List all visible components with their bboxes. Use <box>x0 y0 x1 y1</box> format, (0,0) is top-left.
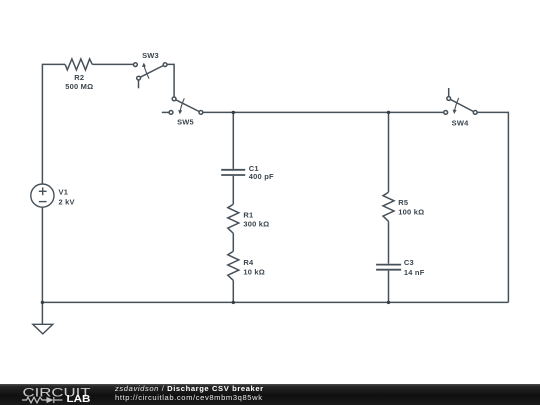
svg-text:C3: C3 <box>404 258 414 267</box>
wire: middle bus SW5 to SW4 <box>203 111 444 113</box>
wire: SW4 unconnected top stub <box>448 88 450 97</box>
svg-text:R5: R5 <box>398 198 408 207</box>
wire: bus to R5 top <box>388 112 390 192</box>
node: bottom C1-branch junction <box>232 301 235 304</box>
wire: R4 bottom to bus <box>232 280 234 302</box>
node: bus/C1 junction <box>232 111 235 114</box>
label V1 value <box>59 187 75 206</box>
svg-text:R2: R2 <box>74 73 84 82</box>
resistor R5 <box>383 192 394 221</box>
label C1 value <box>249 164 274 181</box>
label SW4 <box>452 119 469 128</box>
wire: C3 bottom to bus <box>388 271 390 303</box>
svg-text:100 kΩ: 100 kΩ <box>398 207 424 216</box>
svg-text:2 kV: 2 kV <box>59 197 75 206</box>
resistor R1 <box>228 204 239 233</box>
switch SW4 <box>444 97 477 115</box>
svg-text:300 kΩ: 300 kΩ <box>243 220 269 229</box>
node: bus/R5 junction <box>387 111 390 114</box>
svg-text:V1: V1 <box>59 187 69 196</box>
footer credit line <box>114 384 264 402</box>
capacitor C1 <box>221 170 245 175</box>
voltage source V1 <box>31 184 54 207</box>
svg-text:R4: R4 <box>243 258 254 267</box>
label R1 value <box>243 210 269 228</box>
svg-text:500 MΩ: 500 MΩ <box>65 82 93 91</box>
wire: top-left from R2 to left riser down to V1 <box>42 64 65 184</box>
capacitor C3 <box>376 265 401 270</box>
switch SW3 <box>134 63 168 89</box>
wire: R5 bottom to C3 top <box>388 221 390 263</box>
wire: bus to C1 top <box>232 112 234 168</box>
svg-text:400 pF: 400 pF <box>249 172 274 181</box>
svg-text:LAB: LAB <box>67 394 91 405</box>
node: bottom R5-branch junction <box>387 301 390 304</box>
CircuitLab logo schematic squiggle (resistor + diode) <box>22 397 63 403</box>
CircuitLab logo LAB text <box>67 394 91 405</box>
svg-text:SW5: SW5 <box>177 117 194 126</box>
wire: V1 bottom to ground junction <box>41 207 43 302</box>
svg-text:SW3: SW3 <box>142 51 159 60</box>
resistor R4 <box>228 251 239 280</box>
switch SW5 <box>169 97 203 114</box>
label R5 value <box>398 198 424 216</box>
CircuitLab logo wordmark <box>23 385 92 399</box>
resistor R2 <box>65 59 92 70</box>
svg-text:zsdavidson / Discharge CSV bre: zsdavidson / Discharge CSV breaker <box>114 384 264 393</box>
label SW5 <box>177 117 194 126</box>
svg-text:10 kΩ: 10 kΩ <box>243 267 265 276</box>
wire: ground stem <box>41 302 43 324</box>
label SW3 <box>142 51 159 60</box>
wire: R1 bottom to R4 top <box>232 233 234 251</box>
node: ground junction <box>41 301 44 304</box>
wire: R2 to SW3 terminal <box>92 63 133 65</box>
svg-text:R1: R1 <box>243 210 253 219</box>
label R2 value <box>65 73 93 91</box>
wire: SW4 right to right riser down to bus <box>477 112 508 302</box>
svg-text:SW4: SW4 <box>452 119 469 128</box>
svg-text:14 nF: 14 nF <box>404 268 425 277</box>
wire: SW5 unconnected left stub <box>162 111 169 113</box>
wire: bottom bus <box>42 301 508 303</box>
svg-text:http://circuitlab.com/cev8mbm3: http://circuitlab.com/cev8mbm3q85wk <box>115 393 263 402</box>
ground <box>33 324 53 334</box>
wire: C1 bottom to R1 top <box>232 176 234 204</box>
label C3 value <box>404 258 425 277</box>
label R4 value <box>243 258 265 276</box>
wire: SW3 common to SW5 top <box>167 64 174 97</box>
